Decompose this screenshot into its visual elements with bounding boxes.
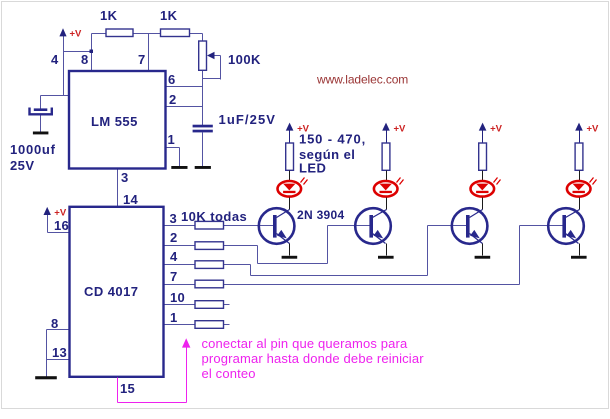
reset wire pin15 magenta (118, 347, 187, 403)
ground Q4 (571, 256, 587, 259)
wire row4 to Q3 base (428, 225, 468, 227)
wire pin7 vertical (148, 34, 150, 72)
svg-text:1: 1 (168, 132, 176, 147)
svg-text:+V: +V (490, 124, 503, 135)
svg-text:25V: 25V (10, 158, 34, 173)
svg-text:+V: +V (394, 124, 407, 135)
wire row7 up to Q4 (519, 226, 521, 285)
svg-text:1uF/25V: 1uF/25V (219, 112, 277, 127)
ground Q2 (378, 256, 394, 259)
wire pot top (202, 34, 204, 42)
resistor R7 10K row10 (195, 301, 224, 309)
resistor LED2 (382, 143, 390, 170)
wire pot wiper right (214, 55, 221, 57)
IC U1 LM 555 (69, 71, 166, 169)
svg-text:3: 3 (121, 170, 129, 185)
svg-text:programar hasta donde debe rei: programar hasta donde debe reiniciar (202, 351, 425, 366)
wire cap1000 to ground (40, 116, 42, 132)
wire pin6 stub (166, 86, 203, 88)
wire row4 up to Q3 (427, 226, 429, 276)
wire resistor to LED4 (579, 171, 581, 181)
resistor R2 1K (160, 8, 190, 37)
wire cap1000 top (40, 96, 42, 109)
wire wiper down (220, 56, 222, 80)
power +V2 arrow (44, 207, 51, 215)
wire row7 stub (164, 284, 196, 286)
transistor Q4 2N3904 (548, 208, 584, 244)
wire pin8b stub (47, 329, 70, 331)
wire R1 left (92, 33, 107, 35)
svg-text:7: 7 (138, 52, 146, 67)
wire +V1 stem (63, 34, 65, 96)
wire Q1 emitter to ground (289, 244, 291, 256)
svg-text:1: 1 (170, 310, 178, 325)
svg-text:8: 8 (51, 316, 59, 331)
svg-text:1000uf: 1000uf (10, 142, 56, 157)
resistor R1 1K (100, 8, 133, 37)
wire row3 stub (164, 225, 196, 227)
ground Q1 (282, 256, 298, 259)
wire Q4 emitter to ground (579, 244, 581, 256)
wire row2 right (224, 245, 258, 247)
wire row2 across (258, 263, 328, 265)
wire +V2 stem (47, 214, 49, 233)
svg-text:16: 16 (54, 218, 69, 233)
svg-text:conectar al pin que queramos p: conectar al pin que queramos para (202, 336, 408, 351)
svg-text:6: 6 (168, 72, 176, 87)
wire row3 to Q1 base (224, 225, 275, 227)
resistor LED1 (286, 143, 294, 170)
wire pin13 stub (47, 359, 70, 361)
resistor R8 10K row1 (195, 321, 224, 329)
capacitor C1 1000uf (10, 108, 56, 174)
wire row10 end (224, 304, 230, 306)
power +V LED2 arrow (382, 123, 390, 144)
wire resistor to LED3 (482, 171, 484, 181)
svg-text:10: 10 (170, 290, 185, 305)
wire row7 to Q4 base (520, 225, 564, 227)
svg-text:100K: 100K (228, 52, 261, 67)
wire pin16 stub (48, 232, 70, 234)
wire pin1 stub (166, 147, 180, 149)
LED D2 (374, 178, 404, 197)
svg-text:CD 4017: CD 4017 (84, 284, 138, 299)
svg-text:2N 3904: 2N 3904 (297, 208, 344, 222)
wire row1 stub (164, 324, 196, 326)
wire row2 down (257, 246, 259, 264)
wire row4 across (251, 275, 428, 277)
transistor Q1 2N3904 (259, 208, 295, 244)
LED D1 (278, 178, 308, 197)
svg-text:+V: +V (297, 124, 310, 135)
svg-text:+V: +V (54, 207, 67, 218)
wire row2 stub (164, 245, 196, 247)
wire R1-R2 (134, 33, 161, 35)
wire pin2 stub (166, 106, 203, 108)
svg-text:1K: 1K (100, 8, 118, 23)
transistor Q2 2N3904 (355, 208, 391, 244)
resistor R4 10K row2 (195, 242, 224, 250)
label 150-470 (299, 132, 366, 176)
wire pin8 vertical (91, 34, 93, 72)
wire row1 end (224, 324, 230, 326)
wire row2 up to Q2 (327, 226, 329, 264)
svg-text:www.ladelec.com: www.ladelec.com (316, 73, 408, 87)
svg-text:14: 14 (123, 192, 139, 207)
ground pin1 (171, 166, 187, 169)
svg-text:4: 4 (51, 52, 59, 67)
wire pin8-13 down (46, 330, 48, 377)
svg-text:15: 15 (120, 381, 135, 396)
ground Q3 (475, 256, 491, 259)
resistor R5 10K row4 (195, 261, 224, 269)
reset arrowhead magenta (182, 338, 190, 347)
ground C1 (33, 132, 49, 135)
svg-text:el conteo: el conteo (202, 366, 256, 381)
junction dot pin8 (90, 50, 94, 54)
IC U2 CD 4017 (70, 207, 164, 377)
wire cap1uF to ground (202, 133, 204, 167)
power +V LED4 arrow (575, 123, 583, 144)
wire pin4 horizontal (41, 95, 70, 97)
wire LED3 to Q3 collector (482, 198, 484, 210)
resistor R6 10K row7 (195, 280, 224, 288)
svg-text:7: 7 (170, 269, 178, 284)
svg-text:1K: 1K (160, 8, 178, 23)
wire row2 to Q2 base (328, 225, 371, 227)
svg-text:3: 3 (170, 211, 178, 226)
resistor R3 10K row3 (195, 221, 224, 229)
potentiometer 100K (199, 41, 261, 70)
wire R2 right (190, 33, 203, 35)
wire LED2 to Q2 collector (386, 198, 388, 210)
transistor Q3 2N3904 (452, 208, 488, 244)
wire Q3 emitter to ground (482, 244, 484, 256)
note text magenta (202, 336, 425, 381)
power +V LED1 arrow (286, 123, 294, 144)
ground C2 (195, 166, 211, 169)
LED D4 (567, 178, 597, 197)
wire wiper to pot bottom (203, 78, 221, 80)
power +V LED3 arrow (479, 123, 487, 144)
wire pin1 down (179, 148, 181, 167)
svg-text:+V: +V (70, 28, 83, 39)
svg-text:150 - 470,: 150 - 470, (299, 132, 366, 147)
wire Q2 emitter to ground (386, 244, 388, 256)
wire LED4 to Q4 collector (579, 198, 581, 210)
wire row10 stub (164, 304, 196, 306)
wire resistor to LED1 (289, 171, 291, 181)
wire resistor to LED2 (386, 171, 388, 181)
ground pins8-13 (35, 376, 57, 379)
wire pin8 tee (64, 51, 92, 53)
wire LED1 to Q1 collector (289, 198, 291, 210)
capacitor C2 1uF/25V (193, 112, 276, 132)
svg-text:+V: +V (587, 124, 600, 135)
wire pin3 to pin14 (117, 169, 119, 207)
wire row7 across (224, 284, 520, 286)
power +V1 arrow (59, 28, 66, 36)
svg-text:13: 13 (52, 345, 67, 360)
wire row4 right (224, 264, 251, 266)
wire pot bottom to cap (202, 71, 204, 126)
wire row4 stub (164, 264, 196, 266)
LED D3 (471, 178, 501, 197)
wire row4 down (250, 265, 252, 276)
resistor LED3 (479, 143, 487, 170)
svg-text:4: 4 (170, 249, 178, 264)
svg-text:8: 8 (81, 52, 89, 67)
resistor LED4 (575, 143, 583, 170)
svg-text:LED: LED (299, 160, 326, 175)
svg-text:LM 555: LM 555 (91, 114, 138, 129)
svg-text:2: 2 (170, 230, 178, 245)
svg-text:2: 2 (169, 92, 177, 107)
